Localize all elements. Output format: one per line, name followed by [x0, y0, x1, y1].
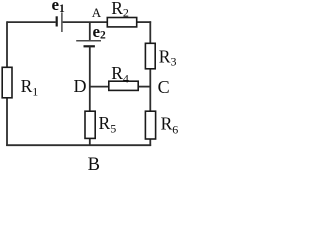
svg-text:A: A	[92, 5, 102, 20]
wire node A down to e2 long plate	[89, 22, 91, 41]
svg-text:e1: e1	[52, 0, 66, 15]
wire R5 bottom to bottom rail	[89, 138, 91, 146]
wire right rail: corner down to R3 top	[149, 21, 151, 43]
wire R3 bottom to R6 top (through node C)	[149, 69, 151, 112]
battery e1 short plate	[56, 16, 58, 26]
wire R2 right to top-right corner	[137, 21, 152, 23]
wire bottom rail	[6, 144, 151, 146]
wire R6 bottom to bottom-right corner	[149, 139, 151, 147]
svg-text:C: C	[158, 77, 170, 97]
battery e1 long plate	[61, 12, 63, 32]
battery e2 long plate	[76, 40, 101, 42]
wire top-left horizontal (left rail to e1 short plate)	[7, 21, 56, 23]
resistor R4	[109, 81, 138, 90]
wire R4 right to node C	[138, 86, 150, 88]
resistor R5	[85, 111, 95, 138]
wire e2 short plate down through node D to R5 top	[89, 46, 91, 111]
resistor R1	[2, 67, 12, 98]
resistor R6	[145, 111, 155, 139]
svg-text:D: D	[74, 76, 87, 96]
svg-text:B: B	[88, 155, 100, 172]
wire node D to R4 left	[90, 86, 109, 88]
resistor R2	[107, 18, 136, 27]
resistor R3	[145, 43, 155, 69]
wire left rail: top corner down to R1 top	[6, 21, 8, 67]
wire e1 long plate to R2 (through node A)	[63, 21, 108, 23]
wire R1 bottom to bottom-left corner	[6, 98, 8, 147]
battery e2 short plate	[84, 45, 95, 47]
